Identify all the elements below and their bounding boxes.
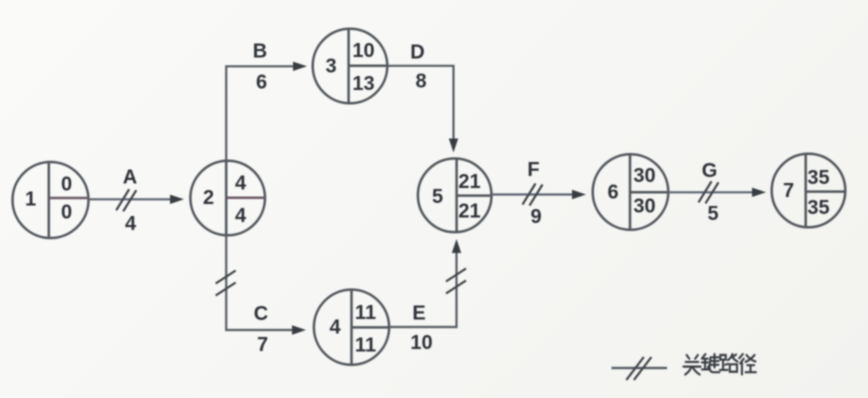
svg-text:11: 11 [355, 302, 376, 324]
svg-text:4: 4 [125, 213, 137, 235]
svg-text:3: 3 [325, 56, 336, 78]
svg-text:6: 6 [607, 182, 618, 204]
legend: sample critical-path line [612, 367, 668, 369]
node 7 (event 7, ET 35 / LT 35) [772, 154, 846, 228]
svg-text:0: 0 [61, 202, 72, 224]
arrowhead of B at node 3 [293, 62, 307, 71]
node 2 (event 2, ET 4 / LT 4) [190, 161, 265, 236]
node 5 (event 5, ET 21 / LT 21) [418, 159, 492, 233]
svg-text:B: B [253, 41, 267, 63]
node 6 (event 6, ET 30 / LT 30) [593, 154, 669, 230]
glyph 径 [739, 354, 756, 374]
critical path tick marks on F [523, 184, 543, 206]
node 4 (event 4, ET 11 / LT 11) [314, 290, 390, 365]
svg-text:7: 7 [783, 180, 794, 202]
svg-text:30: 30 [633, 196, 655, 218]
svg-text:35: 35 [807, 197, 829, 219]
svg-text:0: 0 [61, 174, 72, 196]
wire: activity C from node 2 down and right to node 4 [226, 235, 292, 330]
arrowhead of E at node 5 bottom [452, 239, 461, 253]
glyph 键 [702, 354, 720, 372]
svg-text:4: 4 [329, 317, 341, 339]
arrowhead of G at node 7 [752, 188, 766, 197]
critical path tick marks on C vertical [216, 271, 236, 296]
arrowhead of D at node 5 top [449, 139, 458, 153]
svg-text:7: 7 [257, 334, 268, 356]
glyph 关 [683, 355, 700, 375]
svg-text:A: A [123, 167, 137, 189]
node 3 (event 3, ET 10 / LT 13) [313, 29, 389, 104]
svg-text:8: 8 [415, 71, 426, 93]
svg-text:5: 5 [707, 203, 718, 225]
svg-text:9: 9 [530, 206, 541, 228]
arrowhead of F at node 6 [572, 190, 586, 199]
wire: activity A arrow from node 1 to node 2 [88, 198, 171, 200]
svg-text:C: C [254, 303, 268, 325]
svg-text:10: 10 [352, 40, 374, 62]
svg-text:D: D [410, 42, 424, 64]
critical path tick marks on A [116, 189, 136, 211]
glyph 路 [720, 354, 738, 372]
svg-text:F: F [527, 159, 539, 181]
wire: activity E from node 4 right and up to node 5 [389, 253, 456, 327]
svg-text:2: 2 [203, 187, 214, 209]
svg-text:4: 4 [235, 172, 247, 194]
svg-text:5: 5 [432, 186, 443, 208]
legend text 关键路径 (critical path) drawn as strokes [683, 354, 755, 374]
svg-text:10: 10 [410, 332, 432, 354]
svg-text:E: E [412, 303, 425, 325]
wire: activity G arrow from node 6 to node 7 [668, 191, 753, 193]
svg-text:21: 21 [458, 171, 480, 193]
legend tick marks [626, 357, 651, 380]
svg-text:21: 21 [458, 200, 480, 222]
node 1 (event 1, ET 0 / LT 0) [13, 162, 89, 238]
critical path tick marks on G [699, 181, 719, 203]
svg-text:35: 35 [807, 167, 829, 189]
svg-text:30: 30 [633, 165, 655, 187]
critical path tick marks on E vertical [446, 269, 466, 294]
arrowhead of A at node 2 [170, 195, 184, 204]
svg-text:6: 6 [256, 72, 267, 94]
svg-text:11: 11 [355, 335, 376, 357]
svg-text:13: 13 [352, 73, 374, 95]
wire: activity F arrow from node 5 to node 6 [492, 193, 574, 195]
wire: activity B from node 2 up and right to node 3 [226, 66, 294, 161]
svg-text:1: 1 [25, 189, 36, 211]
svg-text:G: G [702, 160, 718, 182]
wire: activity D from node 3 right and down to node 5 [388, 66, 453, 139]
arrowhead of C at node 4 [292, 325, 306, 334]
svg-text:4: 4 [235, 205, 247, 227]
